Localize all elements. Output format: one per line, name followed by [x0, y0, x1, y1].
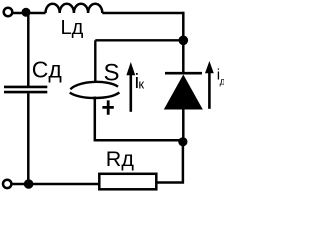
switch S spark-gap lens body: [70, 82, 120, 98]
svg-text:Lд: Lд: [61, 17, 84, 39]
wire bottom left: [12, 183, 100, 186]
capacitor Cd plates: [4, 87, 47, 92]
svg-text:Сд: Сд: [32, 56, 63, 82]
diode VD cathode bar: [165, 72, 202, 75]
wire bottom right corner: [157, 142, 185, 183]
svg-text:д: д: [220, 77, 224, 88]
diode VD triangle: [164, 75, 203, 110]
wire diode bottom lead: [182, 110, 185, 143]
current arrow ik: [130, 73, 133, 112]
polarity plus sign: [102, 100, 113, 114]
svg-text:S: S: [104, 60, 120, 87]
wire top-left: [13, 12, 46, 15]
node junction bottom right: [178, 137, 187, 146]
inductor Ld: [46, 4, 103, 13]
svg-text:Rд: Rд: [106, 147, 135, 171]
wire bottom inner horizontal: [94, 139, 183, 142]
wire capacitor bottom lead: [27, 93, 30, 184]
terminal input top-left: [4, 8, 13, 17]
svg-text:к: к: [138, 77, 144, 92]
wire top right: [102, 12, 184, 15]
wire switch bottom lead: [94, 97, 97, 141]
wire right vertical upper: [182, 12, 185, 73]
node junction bottom-left: [24, 179, 34, 189]
wire left vertical: [27, 12, 30, 86]
terminal output bottom-left: [3, 180, 11, 188]
wire box top edge: [95, 39, 183, 41]
node junction top-left: [22, 8, 31, 17]
resistor Rd body: [99, 174, 156, 190]
node junction right upper: [179, 36, 189, 46]
current arrow id: [208, 73, 211, 109]
wire box left edge: [94, 40, 96, 83]
